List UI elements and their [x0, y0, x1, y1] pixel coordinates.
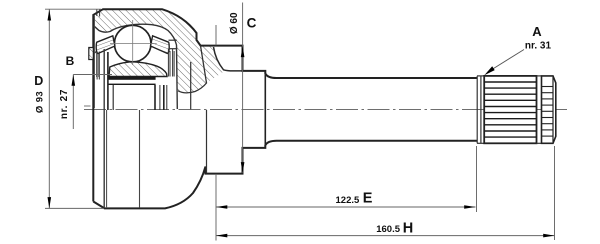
dimension E	[216, 206, 476, 208]
mouth rim line	[93, 16, 95, 109]
mouth groove lines (section)	[96, 50, 98, 77]
threaded end block	[542, 76, 556, 143]
ball crosshair	[110, 43, 157, 45]
svg-text:H: H	[403, 221, 413, 237]
external view lines, bottom half	[103, 49, 105, 207]
cage upper-left blade	[96, 36, 115, 54]
cavity rear face line	[190, 62, 192, 109]
bore teeth dark bands	[108, 77, 156, 80]
cage band to rear wall	[169, 39, 177, 41]
collar rear face extension line (E/H datum)	[215, 25, 217, 45]
svg-text:A: A	[532, 24, 542, 39]
spline main block	[484, 76, 536, 143]
svg-text:Ø 60: Ø 60	[229, 12, 240, 34]
E extension right	[476, 146, 478, 212]
mouth funnel line	[94, 43, 106, 54]
dimension B	[73, 74, 112, 76]
svg-text:E: E	[363, 191, 373, 207]
bell silhouette outline	[93, 9, 477, 208]
cage upper-right blade	[151, 36, 170, 54]
svg-text:B: B	[66, 54, 75, 68]
ball	[114, 25, 151, 62]
svg-text:nr. 27: nr. 27	[59, 89, 70, 119]
dimension C	[242, 3, 244, 173]
svg-text:160.5: 160.5	[376, 224, 400, 235]
small tick left of face	[84, 105, 91, 107]
H extension right	[554, 146, 556, 240]
hub/bore verticals	[107, 52, 109, 110]
cavity inner wall line	[94, 24, 178, 109]
dimension D	[45, 8, 101, 10]
rear cone silhouette, lower half	[206, 110, 208, 173]
A leader + labels	[488, 50, 525, 73]
shaft step face at neck	[264, 73, 266, 146]
cone inner surface to neck line	[214, 47, 243, 71]
centerline	[84, 109, 567, 111]
svg-text:122.5: 122.5	[336, 195, 360, 206]
mouth top groove ticks	[96, 9, 98, 16]
svg-text:Ø 93: Ø 93	[35, 91, 46, 113]
snap ring at mouth	[89, 48, 94, 60]
svg-text:D: D	[34, 74, 43, 88]
inner race hatched dome	[109, 62, 167, 77]
wing-foot lines	[96, 52, 98, 80]
svg-text:nr. 31: nr. 31	[525, 40, 552, 51]
shaft spline: circlip groove at start	[476, 76, 478, 143]
svg-text:C: C	[247, 15, 257, 30]
outer race (bell) hatched section	[93, 9, 225, 93]
groove before end	[537, 75, 542, 77]
rear cone outer boundary	[178, 46, 207, 93]
dimension H	[216, 235, 555, 237]
